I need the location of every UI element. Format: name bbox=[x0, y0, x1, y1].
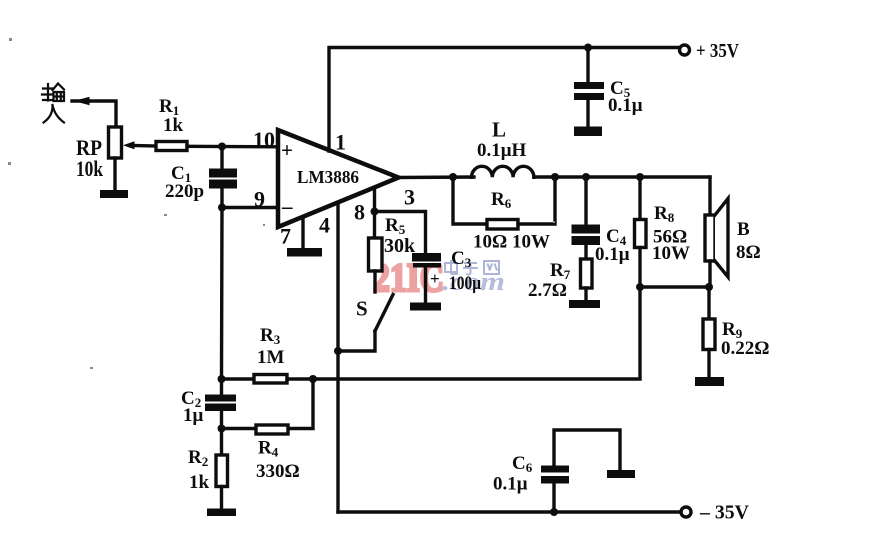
node (C1/pin9) bbox=[218, 204, 226, 212]
wire speaker node to R8 node bbox=[640, 285, 709, 288]
potentiometer RP bbox=[109, 127, 122, 158]
svg-text:L: L bbox=[492, 118, 506, 142]
svg-text:1μ: 1μ bbox=[183, 405, 204, 426]
resistor R9 bbox=[707, 287, 710, 319]
capacitor C1 bbox=[209, 169, 237, 178]
switch S bbox=[375, 295, 393, 332]
node (C5 on +35V rail) bbox=[584, 44, 592, 52]
ground (C5) bbox=[574, 127, 602, 137]
node (C6 on rail) bbox=[550, 508, 558, 516]
svg-text:0.1μ: 0.1μ bbox=[493, 474, 528, 495]
wire L to speaker bbox=[534, 175, 710, 178]
svg-text:– 35V: – 35V bbox=[699, 502, 750, 524]
svg-text:0.1μ: 0.1μ bbox=[595, 244, 630, 265]
svg-text:4: 4 bbox=[319, 213, 330, 238]
svg-text:1: 1 bbox=[335, 130, 346, 155]
svg-text:30k: 30k bbox=[384, 235, 416, 257]
svg-text:1M: 1M bbox=[257, 347, 285, 368]
wire node down to R3 node bbox=[220, 208, 224, 380]
input arrow bbox=[74, 97, 90, 105]
svg-text:+: + bbox=[281, 138, 293, 162]
svg-text:B: B bbox=[737, 219, 750, 240]
svg-text:0.1μH: 0.1μH bbox=[477, 140, 527, 161]
node (L/R6 left) bbox=[449, 173, 457, 181]
svg-text:3: 3 bbox=[404, 185, 415, 210]
svg-text:8: 8 bbox=[354, 200, 365, 225]
wire input to RP bbox=[72, 101, 116, 127]
ground (R2) bbox=[207, 509, 236, 517]
wire output pin3 bbox=[399, 175, 475, 179]
wire wiper to R1 bbox=[132, 144, 156, 148]
wire RP to ground bbox=[113, 158, 116, 191]
svg-text:–: – bbox=[281, 194, 293, 218]
ground (pin7) bbox=[287, 248, 322, 257]
terminal +35V bbox=[680, 45, 690, 55]
node (pin8) bbox=[371, 208, 379, 216]
svg-text:+: + bbox=[430, 269, 440, 288]
input label 输入 bbox=[42, 84, 64, 123]
svg-text:10Ω 10W: 10Ω 10W bbox=[473, 232, 550, 253]
node (C4 tap) bbox=[582, 173, 590, 181]
node (speaker bottom) bbox=[705, 283, 713, 291]
node (R3 right / feedback) bbox=[309, 375, 317, 383]
wire pin7 to ground bbox=[301, 217, 304, 249]
resistor R2 bbox=[220, 429, 223, 456]
svg-text:0.22Ω: 0.22Ω bbox=[721, 338, 769, 359]
node (C2/R4/R2) bbox=[218, 425, 226, 433]
svg-text:2.7Ω: 2.7Ω bbox=[528, 280, 567, 301]
node (R8 tap) bbox=[636, 173, 644, 181]
op-amp U1 LM3886 bbox=[278, 130, 399, 227]
node (switch to V- line) bbox=[334, 347, 342, 355]
svg-text:220p: 220p bbox=[165, 181, 204, 202]
watermark 21IC.com 电子网 bbox=[373, 255, 505, 300]
resistor R6 parallel loop bbox=[453, 177, 487, 224]
ground (R9) bbox=[695, 377, 724, 386]
capacitor C5 bbox=[586, 48, 589, 83]
svg-text:8Ω: 8Ω bbox=[736, 242, 761, 263]
svg-text:1k: 1k bbox=[163, 115, 184, 136]
svg-text:10W: 10W bbox=[652, 243, 690, 264]
svg-text:9: 9 bbox=[254, 187, 265, 212]
svg-text:330Ω: 330Ω bbox=[256, 461, 300, 482]
resistor R7 bbox=[581, 259, 593, 288]
wire feedback line bbox=[313, 287, 640, 379]
svg-text:7: 7 bbox=[280, 224, 291, 249]
svg-text:1k: 1k bbox=[189, 472, 210, 493]
speaker B bbox=[708, 177, 711, 215]
resistor R1 bbox=[156, 142, 187, 151]
capacitor C2 bbox=[220, 379, 223, 395]
wire -35V rail bbox=[338, 510, 680, 513]
svg-text:S: S bbox=[356, 297, 368, 321]
resistor R4 bbox=[222, 427, 258, 430]
ground (C3) bbox=[410, 303, 441, 311]
svg-text:LM3886: LM3886 bbox=[297, 167, 359, 187]
wire node to C1 bbox=[220, 147, 223, 170]
inductor L bbox=[472, 166, 534, 177]
resistor R5 bbox=[373, 212, 376, 239]
svg-text:0.1μ: 0.1μ bbox=[608, 95, 643, 116]
ground (C6) bbox=[607, 470, 635, 478]
wire pin9 bbox=[222, 206, 278, 209]
node (R8 bottom) bbox=[636, 283, 644, 291]
ground (R7) bbox=[569, 300, 600, 308]
svg-text:10k: 10k bbox=[76, 156, 104, 181]
ground (RP) bbox=[100, 190, 128, 198]
wire pin8 to C3 bbox=[375, 212, 426, 254]
resistor R8 bbox=[638, 177, 641, 220]
node (R1/C1/pin10) bbox=[218, 143, 226, 151]
svg-text:100μ: 100μ bbox=[449, 273, 481, 294]
resistor R3 bbox=[218, 375, 226, 383]
wire R1 to node bbox=[187, 145, 278, 149]
terminal -35V bbox=[681, 507, 691, 517]
svg-text:10: 10 bbox=[253, 127, 275, 152]
wire C1 to pin9 node bbox=[220, 189, 223, 208]
wiper arrow bbox=[123, 141, 135, 149]
capacitor C4 bbox=[584, 177, 587, 225]
wire pin1 to +35V rail bbox=[329, 48, 680, 152]
wire pin4 down to -35V rail bbox=[336, 203, 339, 512]
capacitor C6 bbox=[552, 484, 555, 513]
node (L/R6 right) bbox=[551, 173, 559, 181]
capacitor C3 bbox=[412, 253, 441, 262]
wire pin8 stub bbox=[373, 189, 376, 212]
svg-text:+ 35V: + 35V bbox=[696, 40, 739, 62]
